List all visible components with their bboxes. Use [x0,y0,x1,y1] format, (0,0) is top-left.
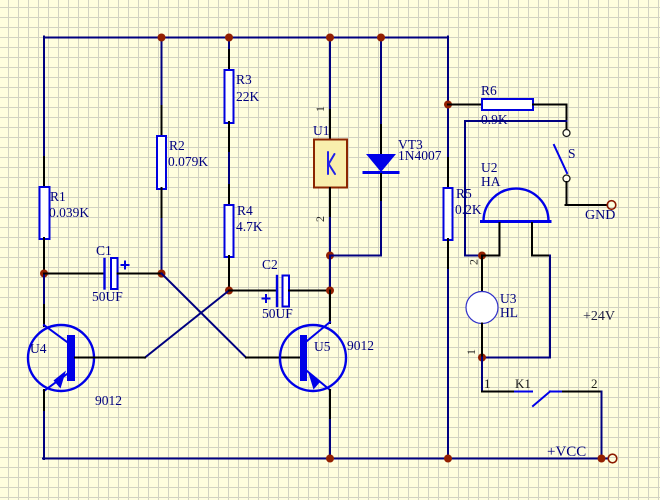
resistor R4 labels [236,203,263,234]
wire right trunk upper [447,37,449,159]
resistor R6 labels [481,83,508,127]
resistor R2 pin bottom [161,188,163,219]
resistor R4 pin top [228,185,230,206]
node C1-left junction [40,270,48,278]
resistor R1 pin bottom [43,238,45,274]
transistor U5 designator [314,338,374,354]
resistor R3 [225,70,234,123]
transistor U4 designator [30,341,122,408]
transistor U4 [28,325,94,391]
transistor U5 emitter pin [329,390,331,420]
relay contact K1 pin 2 [563,391,602,393]
svg-text:1N4007: 1N4007 [398,148,442,163]
node U1-VT3 junction [326,252,334,260]
resistor R1 value labels [49,189,89,220]
wire R2 branch [161,37,163,107]
resistor R6 pin left [448,104,482,106]
svg-text:+VCC: +VCC [547,444,586,460]
lamp U3 [466,292,498,324]
capacitor C1 pin right [118,273,162,275]
wire right trunk lower [447,270,449,459]
svg-text:U3: U3 [500,291,517,306]
transistor U5 [280,322,346,391]
svg-text:0.039K: 0.039K [49,205,89,220]
svg-text:9012: 9012 [347,338,374,353]
svg-text:GND: GND [585,208,615,223]
svg-text:1: 1 [464,349,478,355]
capacitor C2 pin right [289,290,330,292]
resistor R3 pin bottom [228,122,230,153]
diode VT3 labels [398,137,442,163]
node R3 top junction [225,34,233,42]
resistor R4 [225,205,234,257]
wire blue net from switch to U2 node [465,121,567,256]
lamp U3 pin bottom [481,324,483,358]
wire top rail [44,37,448,39]
svg-text:2: 2 [591,376,598,391]
diode VT3 pin bottom [380,174,382,200]
node A junction [158,270,166,278]
capacitor C2 labels [262,257,293,321]
svg-text:R6: R6 [481,83,497,98]
buzzer U2 labels [481,160,501,189]
svg-text:HA: HA [481,174,501,189]
resistor R5 [444,188,453,240]
wire to U5 base [246,357,300,359]
wire lamp node to relay K1 [481,358,483,392]
node relay rail junction [598,455,606,463]
diode VT3 pin top [380,125,382,154]
svg-text:C2: C2 [262,257,278,272]
lamp U3 labels [500,291,518,320]
+VCC terminal [608,454,617,463]
svg-text:0.079K: 0.079K [168,154,208,169]
node lamp bottom junction [478,354,486,362]
node U5 rail junction [326,455,334,463]
node C2 right junction [326,287,334,295]
resistor R2 [157,136,166,189]
svg-text:C1: C1 [96,243,112,258]
U1 internal k symbol [328,152,335,174]
node U2 left junction [478,252,486,260]
buzzer U2 pin left [482,223,500,256]
svg-text:0.2K: 0.2K [455,202,482,217]
svg-text:K1: K1 [515,376,531,391]
transistor U5 collector pin [329,291,331,324]
capacitor C1 labels [92,243,123,304]
op-amp U1 body [314,140,347,188]
relay contact K1 labels [484,376,598,391]
svg-text:1: 1 [313,106,327,112]
relay contact K1 [515,392,563,407]
svg-text:U5: U5 [314,339,331,354]
svg-text:R2: R2 [169,138,185,153]
transistor U4 collector pin [43,305,45,326]
resistor R2 pin top [161,106,163,137]
wire VT3 branch [380,37,382,126]
svg-text:2: 2 [313,216,327,222]
svg-text:50UF: 50UF [92,289,123,304]
capacitor C2 pin left [229,290,276,292]
wire U1 branch [329,37,331,111]
resistor R3 labels [236,72,260,104]
wire switch to GND [566,182,608,205]
svg-text:U1: U1 [313,123,330,138]
relay contact K1 pin 1 [482,391,515,393]
svg-text:1: 1 [484,376,491,391]
lamp U3 pin top [481,256,483,293]
svg-text:R4: R4 [237,203,253,218]
capacitor C1 [105,258,129,289]
svg-text:2: 2 [467,259,481,265]
resistor R3 pin top [228,50,230,71]
capacitor C1 pin left [44,273,104,275]
node VT3 top junction [377,34,385,42]
wire left trunk upper [43,37,45,158]
svg-text:0.9K: 0.9K [481,112,508,127]
capacitor C2 [263,276,290,307]
transistor U4 base wire [75,357,145,359]
wire relay to rail [601,392,603,459]
buzzer U2 pin right [532,223,550,256]
resistor R1 pin top [43,157,45,188]
resistor R1 [40,187,50,239]
resistor R6 pin right [533,105,567,130]
svg-text:U2: U2 [481,160,498,175]
node B junction [225,287,233,295]
resistor R5 pin top [447,158,449,189]
svg-text:U4: U4 [30,341,47,356]
GND terminal [607,201,616,210]
svg-text:S: S [568,146,576,161]
wire node down to C2 node [329,256,331,292]
wire cross diagonal A [162,274,247,358]
svg-text:9012: 9012 [95,393,122,408]
diode VT3 [364,154,398,173]
wire cross diagonal B [145,291,229,358]
wire left trunk to U4 [43,274,45,306]
svg-text:50UF: 50UF [262,306,293,321]
wire R3 branch [228,37,230,51]
resistor R5 pin bottom [447,239,449,270]
node right trunk rail junction [444,455,452,463]
wire R3 to R4 [228,153,230,185]
resistor R2 labels [168,138,208,169]
wire R2 to node [161,219,163,274]
wire node to VT3 bottom [330,200,381,256]
svg-text:4.7K: 4.7K [236,219,263,234]
transistor U4 emitter pin [43,390,45,412]
svg-text:HL: HL [500,305,518,320]
resistor R4 pin bottom [228,256,230,291]
switch S [554,130,570,183]
svg-text:R1: R1 [50,189,66,204]
node U1 top junction [326,34,334,42]
node R2 top junction [158,34,166,42]
wire U5 emitter to rail [329,420,331,458]
component U1 pin 2 [329,188,331,218]
wire left trunk lower [43,412,45,459]
svg-text:22K: 22K [236,89,260,104]
buzzer U2 dome [482,189,551,222]
wire to U4 base [75,357,145,359]
wire U1 pin2 to node [329,218,331,256]
wire U2 right to lamp bottom node [482,256,550,358]
svg-text:R3: R3 [236,72,252,87]
resistor R5 labels [455,186,482,217]
component U1 pin 1 [329,110,331,140]
node R6 junction [444,101,452,109]
wire bottom rail [43,458,608,460]
svg-text:+24V: +24V [583,309,615,324]
resistor R6 [482,99,533,110]
